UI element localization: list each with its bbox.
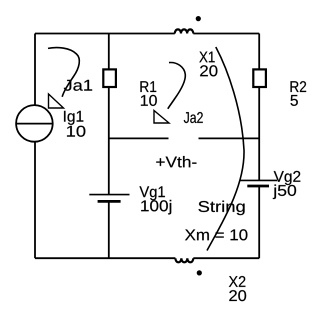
current arrow Ja1 head [49,94,64,108]
wire left lower [34,142,36,259]
label Ja2 [184,112,203,123]
coupling curve String [207,47,244,251]
label X2 value 20 [229,290,246,301]
wire bottom-right segment [193,257,259,259]
voltage source Vg2 [240,180,277,186]
wire middle branch bottom [108,201,110,258]
wire right below Vg2 [258,186,260,258]
resistor R1 [103,69,116,87]
wire middle branch center [108,87,110,195]
label Ig1 [64,111,83,125]
current arrow Ja2 curve [168,63,186,109]
inductor X2 [175,258,193,262]
wire bottom-left segment [35,257,175,259]
label R1 [140,81,156,92]
label Xm = 10 [185,229,247,240]
wire Vth right [199,137,260,139]
inductor X1 [175,29,194,33]
label X1 value 20 [200,65,217,76]
label Vg1 [139,186,164,200]
label X2 [229,276,246,287]
label Vg2 [274,171,301,185]
current source Ig1 [16,105,53,142]
wire top-left segment [35,33,175,35]
label String [198,201,244,216]
wire middle branch top [108,34,110,70]
wire left upper [34,34,36,106]
voltage source Vg1 [89,195,129,202]
current arrow Ja1 curve [48,48,79,97]
label X1 [199,52,214,63]
wire Vth left [109,137,169,139]
polarity dot X1 [196,16,201,21]
label Ja1 [64,80,92,91]
label Vg2 value j50 [273,185,296,200]
resistor R2 [253,69,266,87]
current arrow Ja2 head [154,111,169,124]
label R2 [291,81,307,92]
polarity dot X2 [197,270,202,275]
label R1 value 10 [141,95,157,106]
label Ig1 value 10 [67,126,85,137]
label Vth [156,156,196,167]
label Vg1 value 100j [141,200,171,215]
wire top-right segment [193,33,259,35]
wire right between R2 and Vg2 [258,87,260,180]
wire right above R2 [258,34,260,70]
label R2 value 5 [291,95,298,106]
